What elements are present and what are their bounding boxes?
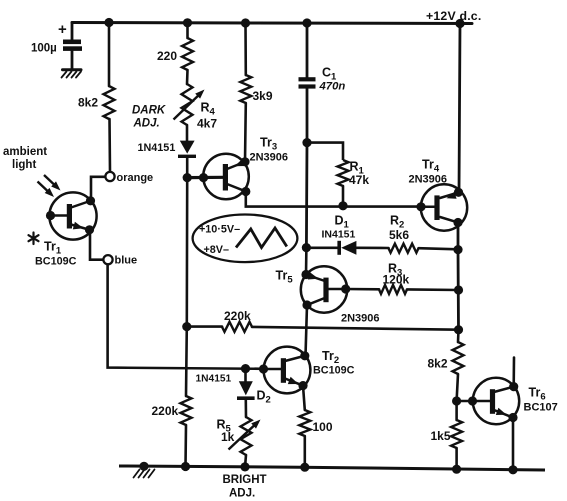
wire Tr1 emitter to blue node xyxy=(90,230,103,260)
node R5 ground junction xyxy=(240,462,249,471)
label Tr2 BC109C xyxy=(313,349,355,377)
svg-text:orange: orange xyxy=(117,172,154,184)
wire Tr4 collector down xyxy=(457,223,460,250)
resistor R3 120k xyxy=(379,262,410,294)
wire junction to D2 xyxy=(244,369,247,382)
resistor 8k2 (left) xyxy=(78,86,115,119)
wire to 8k2 xyxy=(457,330,460,342)
wire 220k to right rail xyxy=(252,327,459,330)
wire 8k2 to Tr6 base junction xyxy=(457,374,458,401)
wire rail to 220 xyxy=(186,23,189,38)
svg-text:BRIGHT: BRIGHT xyxy=(223,474,267,486)
wire junction down to 220k xyxy=(186,178,189,327)
svg-text:470n: 470n xyxy=(319,81,346,93)
wire rail to C1 xyxy=(306,23,309,78)
svg-text:3k9: 3k9 xyxy=(253,89,273,103)
wire junction to Tr6 base xyxy=(457,400,473,403)
wire junction to Tr3 base xyxy=(187,176,223,180)
svg-text:+12V d.c.: +12V d.c. xyxy=(426,9,481,23)
transistor Tr3 2N3906 xyxy=(203,154,250,200)
label BRIGHT ADJ. xyxy=(223,474,267,500)
wire ground rail xyxy=(119,466,545,470)
svg-text:1N4151: 1N4151 xyxy=(138,142,176,154)
label Tr4 2N3906 xyxy=(409,158,448,186)
diode D2 1N4151 xyxy=(196,374,271,406)
wire orange node to Tr1 collector xyxy=(91,177,105,199)
svg-text:BC109C: BC109C xyxy=(35,256,77,268)
node Tr6 base junction xyxy=(452,396,461,405)
transistor Tr5 2N3906 xyxy=(301,266,351,312)
svg-text:+10·5V–: +10·5V– xyxy=(199,224,240,236)
wire rail to Tr4 emitter xyxy=(459,24,460,193)
resistor 220k (horizontal) xyxy=(222,309,252,332)
wire Tr6 emitter to ground xyxy=(512,418,515,471)
wire D1 junction to Tr5 emitter xyxy=(305,248,308,275)
wire R2 to right rail xyxy=(419,248,459,249)
label Tr3 2N3906 xyxy=(250,136,289,164)
ground (capacitor) xyxy=(62,70,82,78)
capacitor C 100µ xyxy=(31,21,82,69)
svg-text:+: + xyxy=(58,21,67,38)
node R2 right junction xyxy=(453,245,462,254)
label DARK ADJ. xyxy=(132,105,166,130)
node 100 ground junction xyxy=(300,463,309,472)
wire R4 to diode xyxy=(186,125,189,141)
svg-text:8k2: 8k2 xyxy=(78,96,98,110)
label ambient light xyxy=(3,146,47,171)
wire +12V top supply rail xyxy=(72,23,472,24)
node blue terminal xyxy=(103,255,137,267)
light arrow 2 xyxy=(38,182,49,193)
node 220k ground junction xyxy=(181,462,190,471)
wire Tr5 collector to Tr2 collector xyxy=(306,305,308,356)
svg-text:DARK: DARK xyxy=(132,105,166,117)
svg-text:ambient: ambient xyxy=(3,146,47,158)
transistor Tr6 BC107 xyxy=(468,378,519,424)
waveform annotation ellipse xyxy=(193,215,298,263)
node R3 right junction xyxy=(454,285,463,294)
node R4-diode / Tr3 base junction xyxy=(183,173,192,182)
svg-text:220k: 220k xyxy=(152,404,179,418)
resistor R2 5k6 xyxy=(389,214,419,253)
wire rail to 8k2 xyxy=(108,23,111,87)
node 1k5 ground junction xyxy=(452,465,461,474)
svg-text:ADJ.: ADJ. xyxy=(229,488,255,500)
svg-text:100: 100 xyxy=(313,420,333,434)
ground (bottom rail) xyxy=(134,470,155,478)
wire 100 to ground xyxy=(303,436,306,467)
node D1 junction xyxy=(302,243,311,252)
wire blue node down and right to Tr2 base xyxy=(108,264,263,369)
transistor Tr2 BC109C xyxy=(259,347,311,394)
node R1 bottom junction xyxy=(338,201,347,210)
svg-text:2N3906: 2N3906 xyxy=(341,313,380,325)
node rail-8k2 junction xyxy=(104,18,113,27)
wire Tr3 collector to Tr4 base xyxy=(246,192,421,207)
label Tr5 2N3906 xyxy=(276,269,380,325)
node ground-symbol junction xyxy=(139,462,148,471)
label Tr6 BC107 xyxy=(524,386,558,414)
svg-text:100µ: 100µ xyxy=(31,43,57,55)
node 220k right junction xyxy=(454,325,463,334)
node D2 junction xyxy=(241,364,250,373)
wire junction to 220k xyxy=(187,325,222,328)
svg-text:120k: 120k xyxy=(383,273,410,287)
svg-text:220: 220 xyxy=(157,49,177,63)
wire diode to junction xyxy=(186,158,189,173)
svg-text:8k2: 8k2 xyxy=(428,357,448,371)
wire C1 junction down to D1 junction xyxy=(305,143,308,248)
wire 220k to ground xyxy=(184,425,187,466)
svg-text:+8V–: +8V– xyxy=(204,244,230,256)
svg-text:2N3906: 2N3906 xyxy=(250,152,289,164)
wire rail to 3k9 xyxy=(244,23,247,75)
svg-text:47k: 47k xyxy=(349,173,369,187)
wire Tr2 emitter down xyxy=(303,386,305,410)
diode 1N4151 (dark adj) xyxy=(138,141,197,158)
svg-text:blue: blue xyxy=(115,255,138,267)
node rail-3k9 junction xyxy=(241,18,250,27)
wire C1 to junction xyxy=(306,89,309,143)
wire 3k9 to Tr3 emitter xyxy=(244,103,247,162)
wire D1 anode xyxy=(306,247,338,250)
wire R1 to collector line xyxy=(342,186,345,206)
node 220k left junction xyxy=(182,322,191,331)
light arrow 1 xyxy=(44,175,55,186)
svg-text:2N3906: 2N3906 xyxy=(409,174,448,186)
svg-text:BC109C: BC109C xyxy=(313,365,355,377)
transistor Tr1 BC109C xyxy=(46,192,97,239)
diode D1 IN4151 xyxy=(322,214,357,255)
svg-text:1k5: 1k5 xyxy=(431,429,451,443)
capacitor C1 470n xyxy=(299,66,346,93)
svg-text:5k6: 5k6 xyxy=(389,228,409,242)
wire D1 to R2 xyxy=(356,247,388,250)
node rail-Tr4 junction xyxy=(455,19,464,28)
svg-text:1N4151: 1N4151 xyxy=(196,374,232,385)
potentiometer R5 1k BRIGHT ADJ xyxy=(217,417,261,455)
svg-text:light: light xyxy=(12,159,36,171)
svg-text:1k: 1k xyxy=(221,430,235,444)
node rail-220 junction xyxy=(183,18,192,27)
svg-text:ADJ.: ADJ. xyxy=(133,118,160,130)
wire junction to 1k5 xyxy=(455,401,458,420)
svg-text:IN4151: IN4151 xyxy=(322,229,356,241)
wire 1k5 to ground xyxy=(455,448,458,469)
wire D2 to R5 xyxy=(245,400,248,417)
wire Tr5 base to R3 xyxy=(346,288,379,291)
transistor Tr4 2N3906 xyxy=(416,184,467,230)
node orange terminal xyxy=(105,172,153,184)
node rail-C1 junction xyxy=(302,18,311,27)
resistor 3k9 xyxy=(240,75,273,103)
resistor 220k (vertical) xyxy=(152,396,192,425)
svg-text:BC107: BC107 xyxy=(524,402,558,414)
resistor 8k2 (right) xyxy=(428,342,464,374)
node Tr6 emitter ground junction xyxy=(508,465,517,474)
resistor R1 47k xyxy=(338,160,370,188)
potentiometer R4 4k7 DARK ADJ xyxy=(174,84,218,131)
wire 220k junction down xyxy=(185,327,188,396)
node C1-R1 junction xyxy=(302,138,311,147)
resistor 1k5 xyxy=(431,420,463,448)
wire 8k2 to orange node xyxy=(108,119,111,172)
wire 220 to R4 xyxy=(186,70,189,84)
label * Tr1 BC109C xyxy=(29,233,77,268)
wire junction to R1 top xyxy=(307,143,343,160)
resistor 220 xyxy=(157,38,193,70)
wire R5 to ground rail xyxy=(245,455,246,467)
wire R3 to right rail xyxy=(407,288,459,291)
svg-text:4k7: 4k7 xyxy=(197,117,217,131)
wire Tr6 collector output stub xyxy=(512,358,515,387)
resistor 100 xyxy=(299,410,333,436)
svg-text:220k: 220k xyxy=(224,309,251,323)
